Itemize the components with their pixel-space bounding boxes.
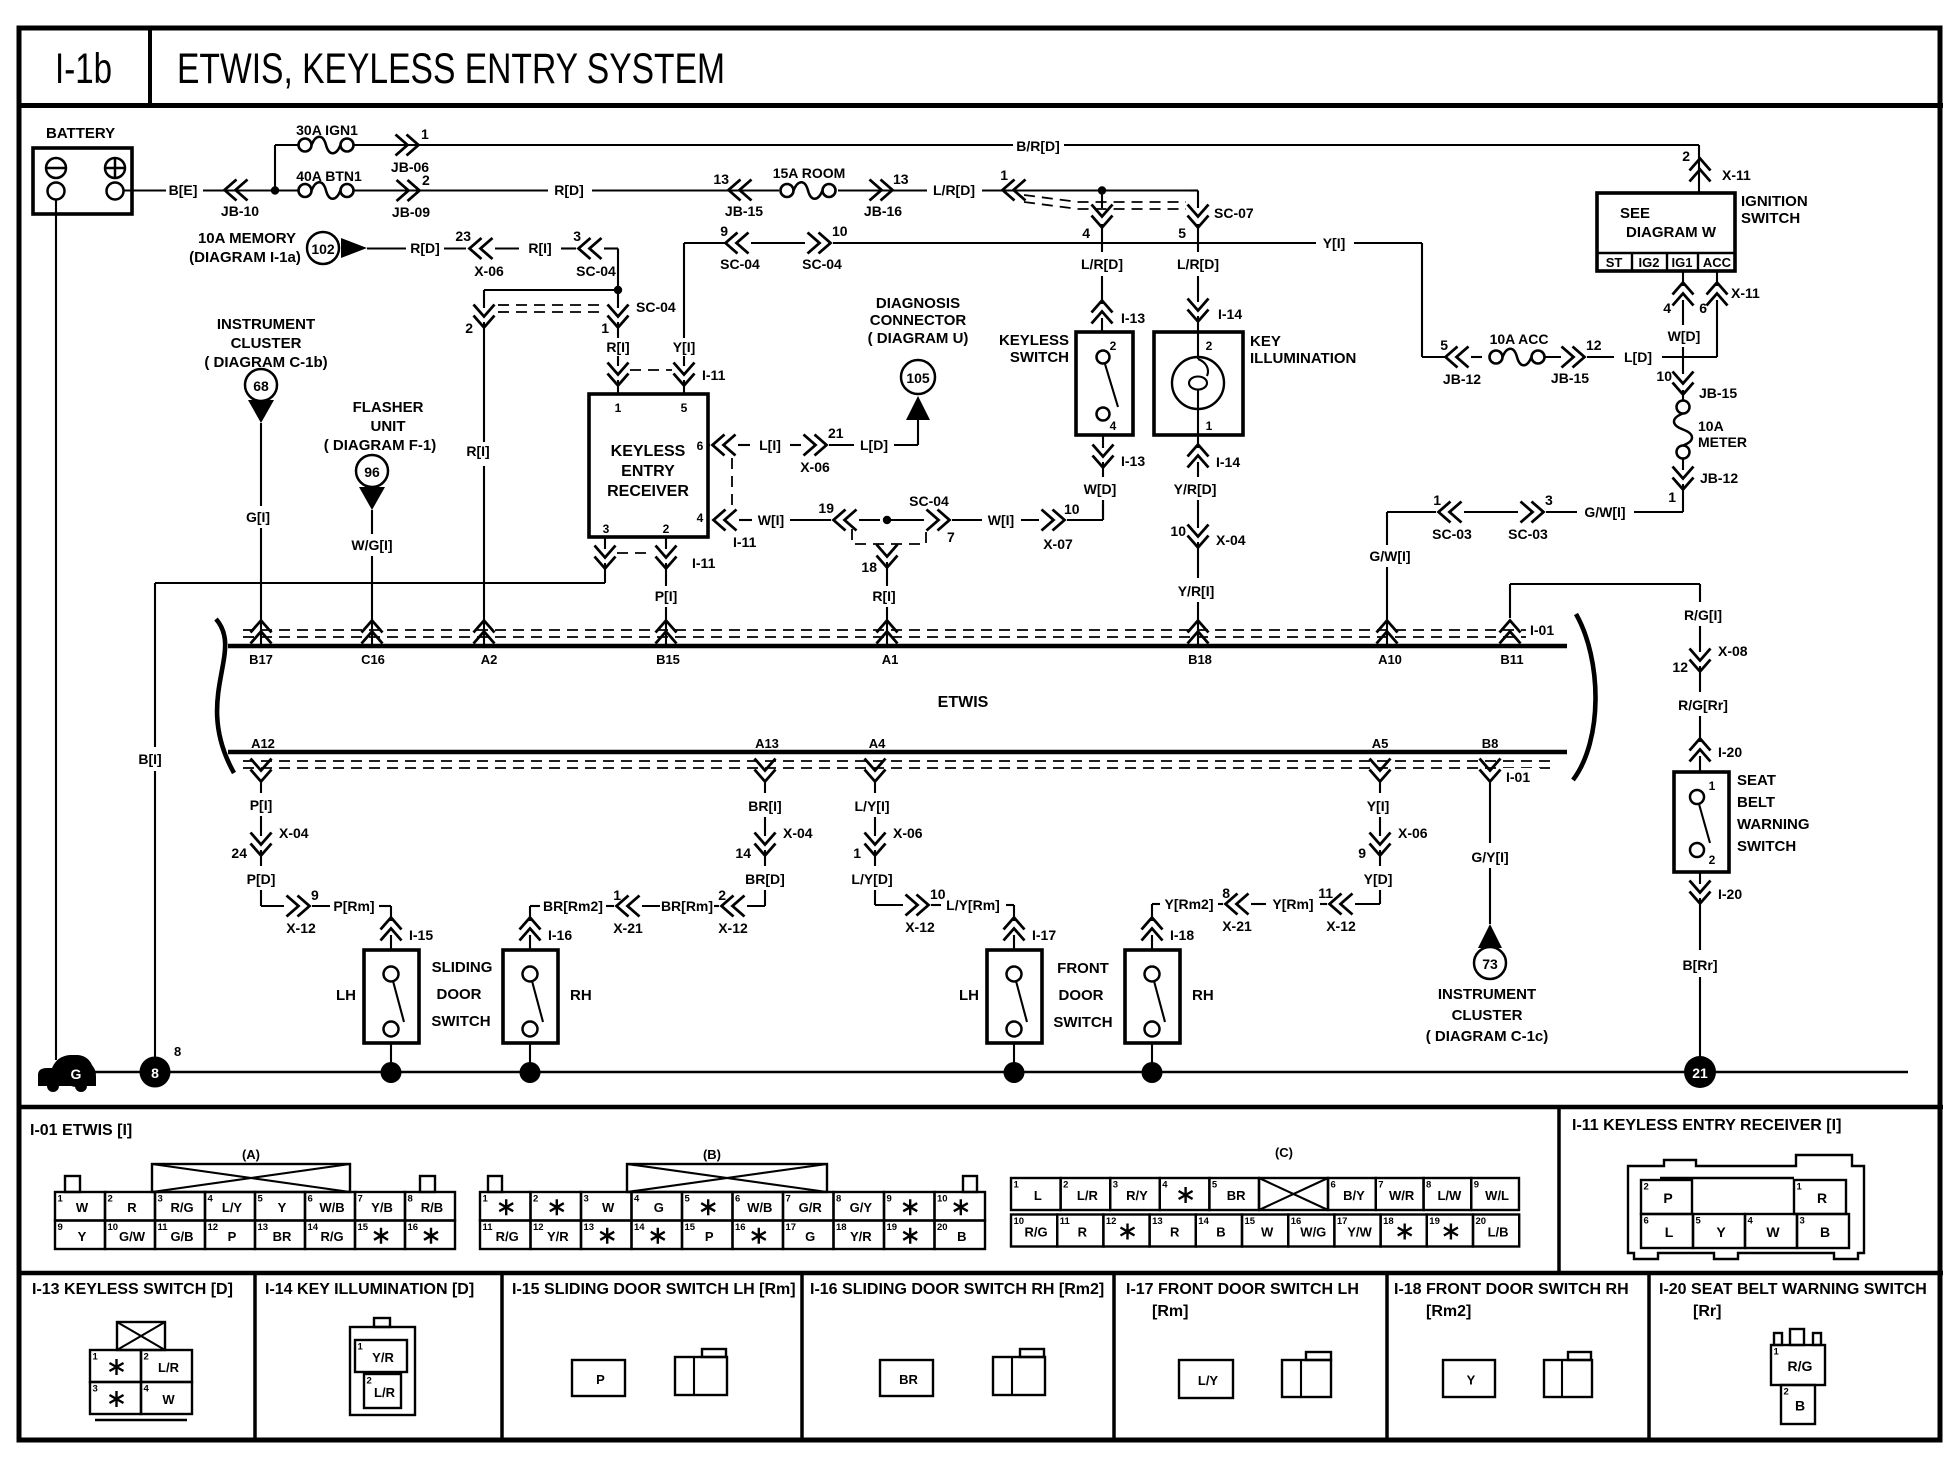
svg-text:I-20: I-20 — [1718, 886, 1742, 902]
svg-text:96: 96 — [364, 464, 380, 480]
svg-text:18: 18 — [861, 559, 877, 575]
connector I-16 — [520, 918, 541, 941]
svg-text:R: R — [127, 1200, 137, 1215]
connector 19 SC-04 — [834, 510, 857, 531]
sliding door switch RH box — [503, 950, 558, 1043]
I-13 connector drawing — [117, 1322, 165, 1350]
svg-text:R[I]: R[I] — [466, 443, 489, 459]
svg-text:B: B — [1820, 1224, 1830, 1240]
svg-text:R/B: R/B — [421, 1200, 443, 1215]
connector B row 2 — [480, 1221, 531, 1250]
svg-text:9: 9 — [887, 1194, 892, 1205]
connector X-11 top — [1690, 159, 1711, 182]
svg-text:R[D]: R[D] — [410, 240, 440, 256]
svg-text:L/R: L/R — [158, 1360, 180, 1375]
svg-text:Y: Y — [1716, 1224, 1726, 1240]
battery lower-right post — [107, 183, 124, 200]
svg-text:X-04: X-04 — [279, 825, 309, 841]
svg-text:( DIAGRAM U): ( DIAGRAM U) — [868, 330, 969, 347]
connector JB-12 vertical — [1673, 467, 1694, 490]
connector 1 SC-04 — [608, 305, 629, 328]
svg-text:12: 12 — [208, 1222, 219, 1233]
svg-text:1: 1 — [483, 1194, 489, 1205]
svg-text:12: 12 — [1586, 337, 1602, 353]
connector I-14 upper — [1188, 299, 1209, 322]
svg-text:4: 4 — [1748, 1216, 1754, 1227]
svg-text:R[D]: R[D] — [554, 182, 584, 198]
svg-text:I-13: I-13 — [1121, 310, 1145, 326]
svg-text:DIAGNOSIS: DIAGNOSIS — [876, 295, 960, 312]
svg-text:1: 1 — [58, 1194, 64, 1205]
connector 9 X-06 — [1370, 833, 1391, 856]
svg-text:(C): (C) — [1275, 1145, 1293, 1160]
front door switch RH box — [1125, 950, 1180, 1043]
svg-text:INSTRUMENT: INSTRUMENT — [1438, 986, 1536, 1003]
battery box — [33, 148, 132, 214]
svg-text:Y[I]: Y[I] — [673, 339, 696, 355]
connector I-13 lower — [1102, 435, 1104, 448]
svg-text:2: 2 — [465, 320, 473, 336]
svg-text:BR[D]: BR[D] — [745, 871, 785, 887]
svg-text:SC-07: SC-07 — [1214, 205, 1254, 221]
svg-text:L/R[D]: L/R[D] — [933, 182, 975, 198]
svg-text:11: 11 — [158, 1222, 169, 1233]
svg-text:9: 9 — [720, 223, 728, 239]
svg-text:SWITCH: SWITCH — [1010, 349, 1069, 366]
svg-text:SLIDING: SLIDING — [432, 959, 493, 976]
svg-text:L/R: L/R — [374, 1385, 396, 1400]
I-20 connector drawing — [1774, 1333, 1782, 1345]
wire L to diagnosis — [917, 420, 919, 445]
ground node RH sliding — [520, 1062, 541, 1083]
connector I-11 pin5 — [674, 363, 695, 386]
svg-text:3: 3 — [1545, 492, 1553, 508]
bus connector B15 — [656, 621, 677, 644]
svg-text:R[I]: R[I] — [528, 240, 551, 256]
svg-text:9: 9 — [58, 1222, 63, 1233]
svg-text:BR: BR — [899, 1372, 918, 1387]
wire R[I] to receiver pin 1 — [617, 322, 619, 338]
svg-text:W: W — [1261, 1225, 1274, 1240]
svg-text:SC-04: SC-04 — [802, 256, 842, 272]
svg-text:BR: BR — [1227, 1188, 1246, 1203]
front door switch LH box — [987, 950, 1042, 1043]
svg-text:40A BTN1: 40A BTN1 — [296, 168, 362, 184]
svg-text:4: 4 — [208, 1194, 214, 1205]
svg-text:10: 10 — [1064, 501, 1080, 517]
wire pin2 P[I] to bus B15 — [665, 563, 667, 586]
svg-text:SWITCH: SWITCH — [1053, 1014, 1112, 1031]
svg-text:11: 11 — [483, 1222, 494, 1233]
svg-text:B18: B18 — [1188, 652, 1212, 667]
connector 9 SC-04 — [726, 233, 749, 254]
svg-text:6: 6 — [1699, 300, 1707, 316]
bottom row panel dividers — [253, 1273, 257, 1440]
junction node SC-04 — [614, 286, 622, 294]
wire P[I] from A12 — [260, 782, 262, 793]
upper bus dashed pair — [243, 629, 1556, 631]
svg-text:X-12: X-12 — [286, 920, 316, 936]
svg-text:G/R: G/R — [799, 1200, 823, 1215]
svg-text:ENTRY: ENTRY — [621, 463, 675, 480]
svg-text:X-12: X-12 — [718, 920, 748, 936]
svg-text:2: 2 — [1709, 853, 1716, 867]
svg-text:18: 18 — [836, 1222, 847, 1233]
svg-text:7: 7 — [786, 1194, 791, 1205]
svg-text:1: 1 — [1709, 779, 1716, 793]
svg-text:15: 15 — [1245, 1216, 1256, 1227]
svg-text:16: 16 — [408, 1222, 419, 1233]
svg-text:R/Y: R/Y — [1126, 1188, 1148, 1203]
svg-text:JB-12: JB-12 — [1443, 371, 1481, 387]
wire B[I] vertical — [154, 583, 156, 747]
svg-text:I-11: I-11 — [692, 555, 716, 571]
ground circle 21 — [1684, 1056, 1716, 1088]
connector 14 X-04 — [755, 833, 776, 856]
svg-text:W/G[I]: W/G[I] — [351, 537, 392, 553]
svg-text:L/Y: L/Y — [222, 1200, 243, 1215]
svg-text:I-17: I-17 — [1032, 927, 1056, 943]
svg-text:SC-04: SC-04 — [636, 299, 676, 315]
svg-text:Y[I]: Y[I] — [1367, 798, 1390, 814]
wire ACC down — [1716, 271, 1718, 286]
connector pin6 I-11 — [713, 435, 736, 456]
svg-text:Y[Rm2]: Y[Rm2] — [1164, 896, 1213, 912]
svg-text:I-11: I-11 — [733, 534, 757, 550]
connector 10 X-04 — [1188, 525, 1209, 548]
svg-text:68: 68 — [253, 378, 269, 394]
svg-text:1: 1 — [1774, 1347, 1780, 1358]
svg-text:3: 3 — [584, 1194, 589, 1205]
svg-text:X-06: X-06 — [474, 263, 504, 279]
body ground symbol G — [38, 1055, 96, 1086]
svg-text:G: G — [805, 1229, 815, 1244]
wire W/G[I] to bus C16 — [371, 510, 373, 534]
svg-text:WARNING: WARNING — [1737, 816, 1810, 833]
connector 9 X-12 — [287, 896, 310, 917]
svg-text:23: 23 — [455, 228, 471, 244]
bus connector A1 — [877, 621, 898, 644]
connector 2 (A2 branch) — [474, 305, 495, 328]
fuse 40A BTN1 — [299, 182, 354, 199]
connector 7 — [927, 510, 950, 531]
wire W[D] ignition — [1682, 300, 1684, 325]
dashed shield hooks — [852, 529, 926, 544]
wire W[I] from receiver pin4 — [714, 510, 737, 531]
circle 73 — [1474, 947, 1506, 979]
bus connector C16 — [362, 621, 383, 644]
svg-text:SC-03: SC-03 — [1432, 526, 1472, 542]
svg-text:R[I]: R[I] — [872, 588, 895, 604]
svg-text:R/G: R/G — [1025, 1225, 1048, 1240]
connector 1 X-21 — [617, 896, 640, 917]
svg-text:BATTERY: BATTERY — [46, 125, 115, 142]
svg-text:BR[I]: BR[I] — [748, 798, 781, 814]
svg-text:18: 18 — [1383, 1216, 1394, 1227]
svg-text:8: 8 — [1426, 1180, 1431, 1191]
svg-text:W[D]: W[D] — [1084, 481, 1117, 497]
connector 10 X-07 — [1042, 510, 1065, 531]
svg-text:X-12: X-12 — [1326, 918, 1356, 934]
svg-text:ST: ST — [1606, 255, 1623, 270]
wire Y[I] to receiver pin 5 — [683, 243, 685, 338]
svg-text:ETWIS, KEYLESS ENTRY SYSTEM: ETWIS, KEYLESS ENTRY SYSTEM — [177, 45, 725, 93]
svg-text:Y/R: Y/R — [547, 1229, 569, 1244]
bus connector B18 — [1188, 621, 1209, 644]
svg-text:L/R: L/R — [1077, 1188, 1099, 1203]
svg-text:W[D]: W[D] — [1668, 328, 1701, 344]
svg-text:105: 105 — [906, 370, 930, 386]
I-15 wire cell — [572, 1360, 625, 1396]
junction node — [271, 186, 279, 194]
svg-text:2: 2 — [1784, 1387, 1789, 1398]
svg-text:P[I]: P[I] — [250, 797, 273, 813]
dashed link pins 3-2 — [617, 552, 653, 554]
wire IG1 down — [1682, 271, 1684, 286]
svg-text:I-15 SLIDING DOOR SWITCH LH [R: I-15 SLIDING DOOR SWITCH LH [Rm] — [512, 1281, 796, 1298]
wire R[D] memory — [367, 247, 406, 249]
svg-text:B[E]: B[E] — [169, 182, 198, 198]
svg-text:19: 19 — [887, 1222, 898, 1233]
wire ACC to L[D] corner — [1716, 300, 1718, 357]
svg-text:2: 2 — [663, 522, 670, 536]
svg-text:Y: Y — [278, 1200, 287, 1215]
wire branch left — [484, 289, 618, 291]
svg-text:5: 5 — [258, 1194, 264, 1205]
svg-text:IG1: IG1 — [1672, 255, 1693, 270]
svg-text:G: G — [71, 1066, 82, 1082]
svg-text:X-21: X-21 — [613, 920, 643, 936]
svg-text:W: W — [1766, 1224, 1780, 1240]
svg-text:Y/R: Y/R — [850, 1229, 872, 1244]
connector C row 2 — [1011, 1215, 1057, 1247]
svg-text:7: 7 — [1378, 1180, 1383, 1191]
bus connector B8 — [1480, 759, 1501, 782]
svg-text:W/B: W/B — [319, 1200, 344, 1215]
svg-text:I-18: I-18 — [1170, 927, 1194, 943]
svg-text:8: 8 — [1222, 885, 1230, 901]
wire corner down to ACC fuse row — [1421, 243, 1423, 357]
svg-text:B: B — [957, 1229, 966, 1244]
svg-text:5: 5 — [681, 401, 688, 415]
svg-text:X-12: X-12 — [905, 919, 935, 935]
memory circle 102 — [307, 232, 339, 264]
label I-01 upper — [1526, 621, 1564, 638]
svg-text:8: 8 — [151, 1065, 159, 1081]
connector JB-15 — [729, 180, 752, 201]
svg-text:1: 1 — [613, 887, 621, 903]
svg-text:2: 2 — [144, 1352, 149, 1363]
svg-text:I-13: I-13 — [1121, 453, 1145, 469]
svg-text:2: 2 — [1644, 1182, 1649, 1193]
svg-text:10A: 10A — [1698, 418, 1724, 434]
svg-text:10: 10 — [108, 1222, 119, 1233]
svg-text:P[D]: P[D] — [247, 871, 276, 887]
svg-text:10: 10 — [832, 223, 848, 239]
svg-text:8: 8 — [836, 1194, 841, 1205]
diagnosis circle 105 — [901, 360, 935, 394]
svg-text:I-13 KEYLESS SWITCH [D]: I-13 KEYLESS SWITCH [D] — [32, 1281, 233, 1298]
svg-text:5: 5 — [685, 1194, 691, 1205]
ground node RH front — [1142, 1062, 1163, 1083]
svg-text:DIAGRAM W: DIAGRAM W — [1626, 224, 1717, 241]
fuse 30A IGN1 — [299, 137, 354, 154]
keyless entry receiver box U1 — [589, 394, 708, 537]
svg-text:R/G[Rr]: R/G[Rr] — [1678, 697, 1728, 713]
I-16 wire cell — [880, 1360, 933, 1396]
svg-text:DOOR: DOOR — [437, 986, 482, 1003]
svg-text:SWITCH: SWITCH — [1741, 210, 1800, 227]
svg-text:A12: A12 — [251, 736, 275, 751]
svg-text:CONNECTOR: CONNECTOR — [870, 312, 967, 329]
svg-text:1: 1 — [93, 1352, 99, 1363]
bus connector B11 — [1500, 621, 1521, 644]
svg-text:6: 6 — [1644, 1216, 1649, 1227]
svg-text:R: R — [1817, 1190, 1827, 1206]
svg-text:( DIAGRAM F-1): ( DIAGRAM F-1) — [324, 437, 437, 454]
battery minus terminal — [46, 158, 66, 178]
ground node LH sliding — [381, 1062, 402, 1083]
svg-text:I-17 FRONT DOOR SWITCH LH: I-17 FRONT DOOR SWITCH LH — [1126, 1281, 1359, 1298]
svg-text:( DIAGRAM C-1c): ( DIAGRAM C-1c) — [1426, 1028, 1549, 1045]
svg-text:9: 9 — [1358, 845, 1366, 861]
svg-text:9: 9 — [311, 887, 319, 903]
svg-text:10: 10 — [937, 1194, 948, 1205]
svg-text:17: 17 — [1337, 1216, 1348, 1227]
wire from B11 to seat belt chain — [1509, 584, 1511, 618]
svg-text:Y[I]: Y[I] — [1323, 235, 1346, 251]
svg-text:P: P — [1663, 1190, 1672, 1206]
svg-text:6: 6 — [735, 1194, 740, 1205]
svg-text:15: 15 — [358, 1222, 369, 1233]
svg-text:15: 15 — [685, 1222, 696, 1233]
svg-text:3: 3 — [93, 1384, 98, 1395]
svg-text:SWITCH: SWITCH — [1737, 838, 1796, 855]
svg-text:L/Y: L/Y — [1198, 1373, 1219, 1388]
svg-text:6: 6 — [697, 439, 704, 453]
svg-text:P: P — [228, 1229, 237, 1244]
I-18 connector shape — [1544, 1360, 1592, 1397]
connector JB-10 — [225, 180, 248, 201]
svg-text:RH: RH — [1192, 987, 1214, 1004]
svg-text:G: G — [654, 1200, 664, 1215]
svg-text:SC-04: SC-04 — [720, 256, 760, 272]
fuse 10A METER vertical — [1677, 401, 1690, 414]
svg-text:I-15: I-15 — [409, 927, 433, 943]
wire G/Y[I] from B8 — [1489, 782, 1491, 843]
connector I-13 upper — [1092, 301, 1113, 324]
svg-text:BR: BR — [273, 1229, 292, 1244]
svg-text:G/W[I]: G/W[I] — [1369, 548, 1410, 564]
svg-text:W/G: W/G — [1300, 1225, 1326, 1240]
dashed shield pin6-pin4 — [731, 458, 733, 508]
svg-text:24: 24 — [231, 845, 247, 861]
receiver pin3 connector I-11 — [595, 546, 616, 569]
connector JB-06 — [396, 135, 419, 156]
svg-text:B/Y: B/Y — [1343, 1188, 1365, 1203]
ground circle 8 — [140, 1057, 171, 1088]
svg-text:P[Rm]: P[Rm] — [333, 898, 374, 914]
svg-text:3: 3 — [573, 228, 581, 244]
svg-text:B: B — [1795, 1398, 1805, 1414]
svg-text:21: 21 — [828, 425, 844, 441]
I-15 connector shape — [675, 1357, 727, 1395]
wire to 30A IGN1 fuse — [274, 145, 276, 191]
svg-text:UNIT: UNIT — [371, 418, 406, 435]
svg-text:JB-15: JB-15 — [1699, 385, 1737, 401]
ignition switch box — [1597, 193, 1735, 271]
svg-text:(B): (B) — [703, 1147, 721, 1162]
junction node W[I] — [883, 516, 891, 524]
svg-text:W/R: W/R — [1389, 1188, 1415, 1203]
bulb symbol — [1172, 357, 1224, 409]
svg-text:4: 4 — [144, 1384, 150, 1395]
label I-01 lower — [1502, 768, 1540, 785]
connector 5 JB-12 — [1446, 347, 1469, 368]
connector A row 1 — [55, 1192, 105, 1221]
connector I-11 pin1 — [608, 363, 629, 386]
svg-text:[Rm2]: [Rm2] — [1426, 1303, 1471, 1320]
wire L/Y[I] from A4 — [874, 782, 876, 793]
connector 1 SC-03 — [1439, 502, 1462, 523]
svg-text:11: 11 — [1318, 885, 1333, 901]
svg-text:Y/R[I]: Y/R[I] — [1178, 583, 1215, 599]
svg-text:2: 2 — [1110, 339, 1117, 353]
connector 1 X-06 — [865, 833, 886, 856]
connector 10 X-12 — [906, 895, 929, 916]
svg-text:R: R — [1078, 1225, 1088, 1240]
bus connector A4 — [865, 759, 886, 782]
svg-text:7: 7 — [358, 1194, 363, 1205]
right brace — [1573, 614, 1596, 780]
svg-text:2: 2 — [1206, 339, 1213, 353]
svg-text:Y: Y — [78, 1229, 87, 1244]
battery plus terminal — [105, 158, 125, 178]
svg-text:W: W — [602, 1200, 615, 1215]
svg-text:CLUSTER: CLUSTER — [1452, 1007, 1523, 1024]
connector 21 X-06 — [804, 435, 827, 456]
svg-text:3: 3 — [603, 522, 610, 536]
svg-text:Y/W: Y/W — [1347, 1225, 1372, 1240]
svg-text:L/Y[Rm]: L/Y[Rm] — [946, 897, 1000, 913]
svg-text:2: 2 — [108, 1194, 113, 1205]
svg-text:I-01: I-01 — [1530, 622, 1554, 638]
seat belt warning switch box — [1674, 772, 1729, 872]
connector 23 X-06 — [470, 238, 493, 259]
svg-text:R/G: R/G — [1788, 1358, 1813, 1374]
svg-text:Y[Rm]: Y[Rm] — [1272, 896, 1313, 912]
circle 96 — [356, 455, 388, 487]
connector 5 SC-07 — [1188, 205, 1209, 228]
svg-text:20: 20 — [937, 1222, 948, 1233]
connector C row 1 — [1011, 1178, 1061, 1210]
connector I-20 lower — [1699, 872, 1701, 884]
svg-text:(A): (A) — [242, 1147, 260, 1162]
svg-text:1: 1 — [601, 320, 609, 336]
connector 3 SC-04 — [579, 238, 602, 259]
svg-text:A1: A1 — [882, 652, 899, 667]
svg-text:I-01 ETWIS [I]: I-01 ETWIS [I] — [30, 1122, 132, 1139]
svg-text:16: 16 — [735, 1222, 746, 1233]
svg-text:KEY: KEY — [1250, 333, 1281, 350]
svg-text:R[I]: R[I] — [606, 339, 629, 355]
svg-text:I-11 KEYLESS ENTRY RECEIVER [I: I-11 KEYLESS ENTRY RECEIVER [I] — [1572, 1117, 1841, 1134]
receiver pin2 connector I-11 — [656, 546, 677, 569]
svg-text:2: 2 — [533, 1194, 538, 1205]
I-16 connector shape — [993, 1357, 1045, 1395]
arrow down 68 — [248, 400, 274, 423]
svg-text:JB-12: JB-12 — [1700, 470, 1738, 486]
